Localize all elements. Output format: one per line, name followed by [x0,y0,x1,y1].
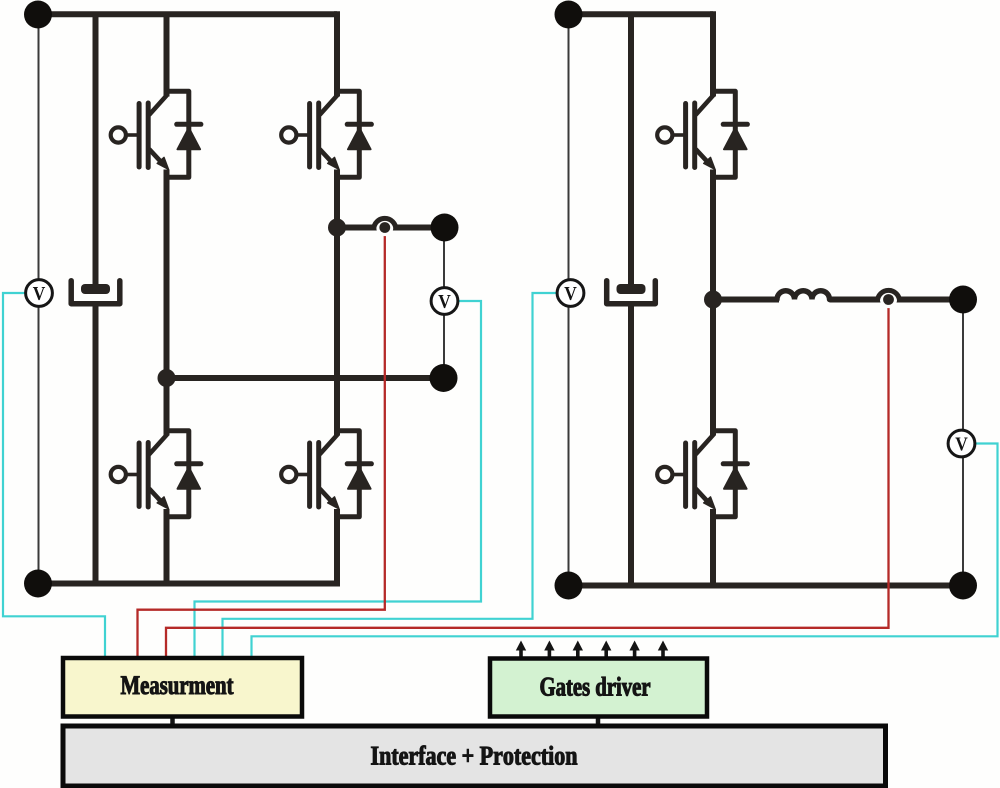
node: DC+ terminal left bridge [24,1,52,29]
thin sense lead: left DC bus to voltmeter V1 [38,15,40,584]
cyan sense wire: V1 to Measurment [3,293,105,659]
connector: Measurment to Interface [170,717,175,727]
cyan sense wire: V4 to Measurment [252,444,998,659]
IGBT Q4 bottom-right [281,431,371,517]
node: phase B junction [158,369,176,387]
thin sense lead: right DC bus to voltmeter V3 [568,15,570,586]
wire: left bridge DC+ top rail [38,11,337,17]
wire: phase output B [167,375,444,381]
thin sense lead: output A to output B through voltmeter V2 [443,228,445,379]
node: phase A terminal [431,214,459,242]
wire: left leg middle segment [164,170,170,436]
connector: Gates driver to Interface [596,717,601,727]
current sensor S1 [374,218,396,236]
gate drive arrow 6 [658,641,668,659]
gate drive arrow 4 [601,641,611,659]
node: DC+ terminal right circuit [555,1,583,29]
capacitor C2 [607,281,656,304]
wire: right DC-link capacitor leg upper [628,14,634,290]
gate drive arrow 3 [573,641,583,659]
wire: right circuit output left of inductor [713,297,779,303]
IGBT Q2 top-right [281,91,371,177]
voltmeter V1 [26,280,53,307]
capacitor C1 [71,281,120,304]
wire: left DC-link capacitor leg lower [93,303,99,583]
cyan sense wire: V2 to Measurment [195,301,482,659]
node: phase B terminal [430,364,458,392]
inductor L1 [777,291,830,300]
wire: right leg of left bridge upper segment [334,11,340,96]
wire: right DC-link capacitor leg lower [628,303,634,585]
wire: right circuit DC- bottom rail [569,583,964,589]
node: right circuit return terminal [949,572,977,600]
current sensor S2 [877,290,899,308]
wire: right circuit DC+ top rail [569,11,714,17]
red sense wire: current sensor S2 to Measurment [166,300,889,659]
IGBT Q1 top-left [111,91,201,177]
wire: right leg of left bridge middle segment [334,170,340,436]
node: right circuit output terminal [949,286,977,314]
wire: right circuit IGBT leg lower segment [710,509,716,586]
wire: right leg of left bridge lower segment [334,509,340,587]
thin sense lead: right output to voltmeter V4 [962,300,964,586]
wire: right circuit IGBT leg upper segment [710,11,716,96]
wire: left bridge DC- bottom rail [38,581,337,587]
box: Gates driver [490,659,707,717]
node: DC- terminal left bridge [24,570,52,598]
voltmeter V2 [431,288,458,315]
node: phase A junction [328,219,346,237]
node: DC- terminal right circuit [555,572,583,600]
wire: phase output A [337,225,445,231]
wire: left DC-link capacitor leg upper [93,14,99,290]
red sense wire: current sensor S1 to Measurment [138,228,385,659]
gate drive arrow 5 [629,641,639,659]
gate drive arrow 2 [544,641,554,659]
node: right circuit midpoint junction [704,291,722,309]
gate drive arrow 1 [516,641,526,659]
box: Interface + Protection [63,726,886,786]
IGBT Q6 right bottom [657,431,747,517]
IGBT Q3 bottom-left [111,431,201,517]
wire: left leg upper segment [164,14,170,96]
wire: right circuit output right of inductor [830,297,964,303]
IGBT Q5 right top [657,91,747,177]
box: Measurment [63,658,302,717]
wire: right circuit IGBT leg middle segment [710,170,716,436]
cyan sense wire: V3 to Measurment [223,293,557,659]
wire: left leg lower segment [164,509,170,584]
voltmeter V4 [948,430,975,457]
voltmeter V3 [557,280,584,307]
